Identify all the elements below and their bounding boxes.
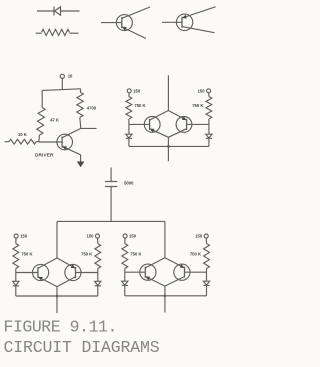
wire left base node to diode FF3 xyxy=(124,272,126,281)
wire R 4700 to collector node xyxy=(80,117,81,128)
terminal 150 left FF1 xyxy=(127,89,131,93)
resistor 750 K right FF1 xyxy=(206,97,212,120)
transistor Q left FF1 xyxy=(129,111,169,138)
svg-text:150: 150 xyxy=(198,89,206,94)
wire right resistor to base node FF3 xyxy=(206,269,208,273)
transistor Q right FF1 xyxy=(168,111,209,138)
supply terminal xyxy=(60,74,64,78)
svg-text:750 K: 750 K xyxy=(134,103,145,108)
svg-text:750 K: 750 K xyxy=(192,103,203,108)
wire distribution bus xyxy=(57,220,165,222)
wire left resistor to base node FF2 xyxy=(15,269,17,273)
svg-text:4700: 4700 xyxy=(87,105,97,110)
wire capacitor top lead xyxy=(110,168,112,182)
wire left terminal to resistor FF3 xyxy=(124,238,126,244)
terminal 150 left FF2 xyxy=(14,234,18,238)
wire bottom node to tail FF3 xyxy=(164,286,166,312)
wire right base node to diode FF1 xyxy=(208,124,210,134)
wire left resistor to base node FF3 xyxy=(124,269,126,273)
svg-text:750 K: 750 K xyxy=(21,251,32,256)
svg-text:5000: 5000 xyxy=(124,180,134,185)
wire top rail xyxy=(42,89,80,91)
svg-text:47 K: 47 K xyxy=(50,117,59,122)
wire left diode to bus FF1 xyxy=(128,138,130,146)
svg-text:10 K: 10 K xyxy=(18,132,27,137)
wire left terminal to resistor FF1 xyxy=(128,93,130,97)
transistor Q right FF3 xyxy=(165,258,207,286)
resistor symbol (legend) xyxy=(36,29,79,35)
transistor Q driver xyxy=(39,128,81,154)
diode right FF1 xyxy=(206,134,212,138)
ground (arrow) xyxy=(77,162,85,168)
wire bottom node to tail FF1 xyxy=(167,137,169,161)
svg-text:10: 10 xyxy=(68,74,73,79)
transistor Q left FF2 xyxy=(16,258,57,287)
wire right terminal to resistor FF1 xyxy=(208,93,210,97)
wire right diode to bus FF3 xyxy=(206,285,208,295)
wire right resistor to base node FF2 xyxy=(97,269,99,273)
wire capacitor bottom lead xyxy=(110,187,112,221)
wire bottom node to tail FF2 xyxy=(56,287,58,313)
transistor symbol Q-legend-2 xyxy=(162,7,216,33)
svg-text:750 K: 750 K xyxy=(81,251,92,256)
wire right base node to diode FF2 xyxy=(97,273,99,282)
wire left diode to bus FF2 xyxy=(15,286,17,296)
wire right diode to bus FF2 xyxy=(97,286,99,296)
bottom bus FF3 xyxy=(125,295,207,297)
wire rail to R 47K xyxy=(41,90,43,107)
resistor 750 K left FF2 xyxy=(13,244,19,269)
wire top feed FF3 xyxy=(164,221,166,257)
resistor 750 K left FF1 xyxy=(126,97,132,120)
resistor 10 K xyxy=(5,139,39,144)
diode left FF1 xyxy=(126,134,132,138)
diode left FF2 xyxy=(13,281,19,286)
wire supply to rail xyxy=(61,78,63,89)
wire left base node to diode FF2 xyxy=(15,273,17,282)
wire left terminal to resistor FF2 xyxy=(15,238,17,244)
diode right FF3 xyxy=(203,281,209,285)
resistor 750 K right FF3 xyxy=(204,244,210,269)
wire emitter down xyxy=(80,155,82,162)
svg-text:150: 150 xyxy=(195,234,203,239)
wire right diode to bus FF1 xyxy=(208,138,210,146)
svg-text:FIGURE 9.11.: FIGURE 9.11. xyxy=(4,317,117,336)
bottom bus FF1 xyxy=(129,145,209,147)
svg-text:DRIVER: DRIVER xyxy=(35,152,54,157)
wire top feed FF1 xyxy=(167,75,169,110)
transistor Q left FF3 xyxy=(125,258,165,286)
wire right base node to diode FF3 xyxy=(206,272,208,281)
wire rail to R 4700 xyxy=(79,89,81,92)
resistor 750 K left FF3 xyxy=(122,244,128,269)
wire left base node to diode FF1 xyxy=(128,124,130,134)
wire right terminal to resistor FF3 xyxy=(205,238,207,244)
terminal 150 right FF2 xyxy=(96,234,100,238)
svg-text:150: 150 xyxy=(20,234,28,239)
svg-text:CIRCUIT DIAGRAMS: CIRCUIT DIAGRAMS xyxy=(4,338,160,357)
wire collector output xyxy=(81,127,97,129)
svg-text:750 K: 750 K xyxy=(190,251,201,256)
terminal 150 right FF3 xyxy=(204,234,208,238)
capacitor 5000 xyxy=(105,182,117,187)
wire left resistor to base node FF1 xyxy=(128,119,130,124)
diode symbol (legend) xyxy=(37,7,80,16)
wire right resistor to base node FF1 xyxy=(208,119,210,124)
terminal 150 left FF3 xyxy=(123,234,127,238)
wire left diode to bus FF3 xyxy=(124,285,126,295)
wire right terminal to resistor FF2 xyxy=(97,238,99,244)
resistor 750 K right FF2 xyxy=(95,244,101,269)
transistor symbol Q-legend-1 xyxy=(101,7,150,39)
wire R 47K to base node xyxy=(38,135,41,142)
svg-text:150: 150 xyxy=(133,89,141,94)
svg-text:150: 150 xyxy=(129,234,137,239)
svg-text:150: 150 xyxy=(87,234,95,239)
junction dot FF2 xyxy=(56,295,59,298)
junction dot FF3 xyxy=(164,295,167,298)
bottom bus FF2 xyxy=(16,295,98,297)
wire top feed FF2 xyxy=(56,221,58,258)
terminal 150 right FF1 xyxy=(207,89,211,93)
svg-text:750 K: 750 K xyxy=(130,251,141,256)
resistor 4700 xyxy=(77,92,84,117)
junction dot FF1 xyxy=(167,145,170,148)
diode left FF3 xyxy=(122,281,128,285)
transistor Q right FF2 xyxy=(57,258,98,287)
resistor 47 K xyxy=(37,107,45,135)
diode right FF2 xyxy=(95,281,101,286)
